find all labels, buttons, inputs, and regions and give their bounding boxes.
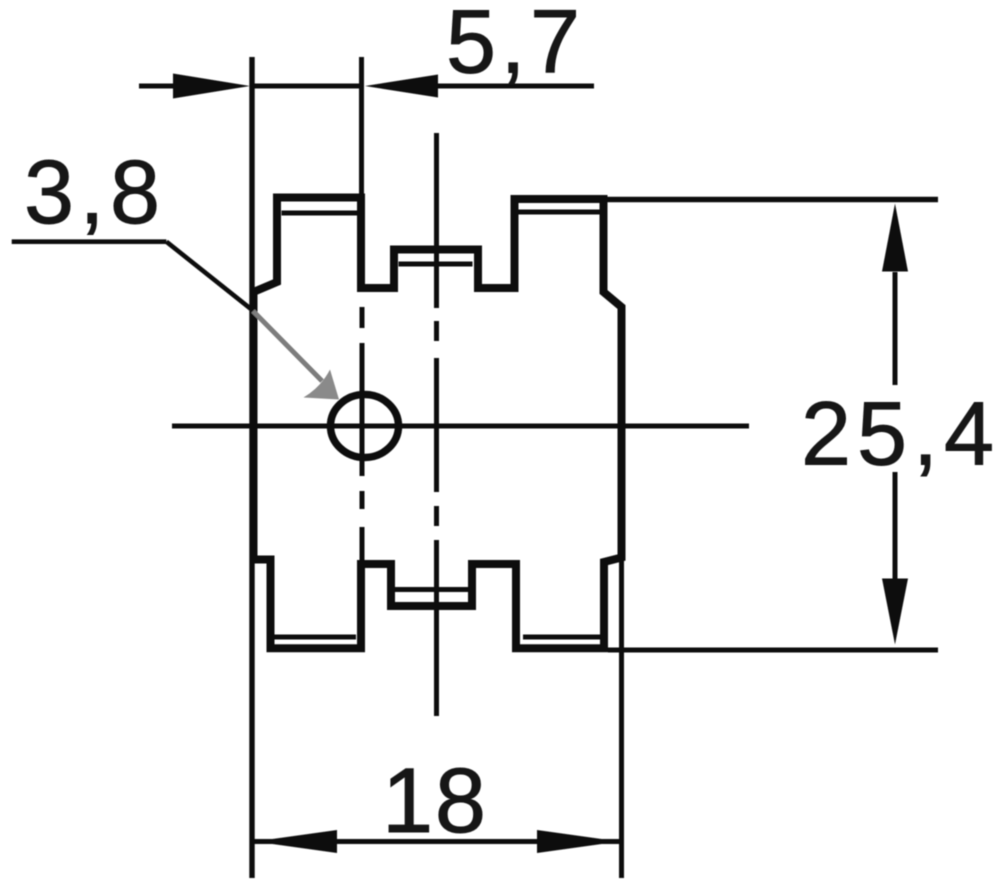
extension line left (datum): [249, 57, 254, 878]
center line horizontal: [172, 424, 749, 429]
svg-text:25,4: 25,4: [801, 385, 994, 485]
leader 3,8 diagonal grey: [253, 311, 322, 381]
leader 3,8 underline: [12, 239, 167, 244]
extension line bottom-right horizontal: [608, 648, 938, 653]
dimension 5,7 line right tail: [438, 84, 594, 89]
center line hole vertical (dash-dot): [360, 307, 365, 562]
dimension 25,4 line upper: [893, 272, 898, 385]
dimension 18 arrowhead right: [537, 830, 620, 853]
dimension 5,7 line left tail: [139, 84, 178, 89]
extension line right bottom: [619, 556, 624, 878]
leader 3,8 arrowhead grey: [304, 370, 340, 400]
dimension 5,7 arrowhead right: [365, 75, 438, 98]
fin inner fold line bottom-right: [523, 635, 600, 640]
dimension 25,4 arrowhead up: [882, 204, 908, 272]
heatsink outline: [254, 198, 622, 649]
fin inner fold line top-middle: [399, 262, 473, 267]
extension line top-right horizontal: [600, 197, 938, 203]
leader 3,8 diagonal black: [166, 242, 254, 312]
fin inner fold line top-left: [282, 211, 358, 216]
dimension 18 arrowhead left: [255, 830, 338, 853]
dimension 25,4 arrowhead down: [882, 579, 908, 645]
dimension 25,4 line lower: [893, 472, 898, 579]
fin inner fold line top-right: [517, 210, 600, 215]
mounting hole circle: [331, 395, 399, 458]
center line vertical (dash-dot): [434, 133, 439, 716]
fin inner fold line bottom-middle: [393, 587, 473, 592]
dimension 5,7 arrowhead left: [173, 74, 250, 99]
fin inner fold line bottom-left: [274, 635, 356, 640]
dimension 18 line: [254, 839, 620, 844]
extension line hole center top: [359, 57, 364, 197]
svg-text:5,7: 5,7: [446, 0, 580, 93]
dimension 5,7 line middle: [252, 84, 362, 89]
svg-text:18: 18: [382, 750, 486, 852]
svg-text:3,8: 3,8: [24, 143, 160, 243]
